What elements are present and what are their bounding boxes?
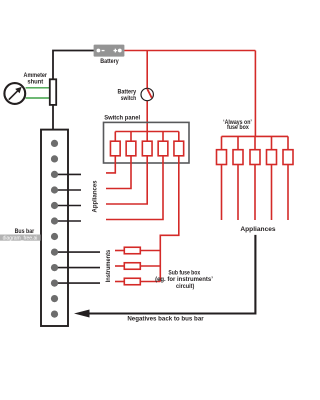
svg-text:Switch panel: Switch panel xyxy=(104,114,140,121)
svg-text:Appliances: Appliances xyxy=(240,226,276,233)
fuse FA5 xyxy=(283,136,293,220)
wire: ammeter sense leads (green) xyxy=(26,87,50,89)
svg-text:Bus bar: Bus bar xyxy=(15,228,35,235)
wire: shunt to bus bar (black) xyxy=(52,105,54,131)
switch SW2 xyxy=(126,132,136,156)
fuse FA3 xyxy=(250,136,260,220)
wire: negatives return (black) xyxy=(89,235,256,314)
svg-text:Appliances: Appliances xyxy=(92,180,99,212)
svg-text:Instruments: Instruments xyxy=(105,249,112,282)
battery B1 xyxy=(94,45,125,65)
svg-text:Negatives back to bus bar: Negatives back to bus bar xyxy=(127,316,204,323)
wire: battery negative to shunt (black) xyxy=(53,51,94,81)
bus bar terminals (dots) xyxy=(51,140,58,318)
wire: appliance negative stub 3 xyxy=(54,205,81,207)
svg-text:circuit): circuit) xyxy=(176,283,194,290)
wire: SW1 output to appliance 1 (red) xyxy=(106,156,115,173)
wire: SW4 output to appliance 4 (red) xyxy=(106,156,163,220)
svg-text:diagram_free.ai: diagram_free.ai xyxy=(3,236,38,242)
fuse FA4 xyxy=(267,136,277,220)
sub fuse F1 xyxy=(115,247,160,254)
wire: appliance negative stub 4 xyxy=(54,220,81,222)
wire xyxy=(26,97,50,99)
ammeter M1 xyxy=(4,72,47,104)
switch SW1 xyxy=(110,132,120,156)
bus bar xyxy=(41,130,68,326)
sub fuse F3 xyxy=(115,278,160,285)
wire: battery positive feed (red) xyxy=(124,50,256,52)
arrowhead into bus bar xyxy=(74,310,90,318)
wire: SW3 output to appliance 3 (red) xyxy=(106,156,147,204)
wire: instrument negative stub 2 xyxy=(54,267,100,269)
svg-text:fuse box: fuse box xyxy=(227,124,249,131)
svg-text:shunt: shunt xyxy=(27,79,44,86)
svg-text:(eg. for instruments’: (eg. for instruments’ xyxy=(155,276,213,283)
wire: appliance negative stub 2 xyxy=(54,189,81,191)
wire: panel bus (red) xyxy=(115,131,179,133)
wire: feed to always-on fuse box (red) xyxy=(254,51,256,137)
wire: instrument negative stub 3 xyxy=(54,282,100,284)
fuse FA1 xyxy=(217,136,227,220)
wire: SW2 output to appliance 2 (red) xyxy=(106,156,131,189)
wire: always-on bus (red) xyxy=(222,135,289,137)
switch panel enclosure xyxy=(104,114,190,163)
node: sub fuse box label xyxy=(155,270,213,291)
sub fuse F2 xyxy=(115,263,160,270)
switch SW4 xyxy=(158,132,168,156)
svg-text:Battery: Battery xyxy=(100,58,119,65)
wire: instrument negative stub 1 xyxy=(54,251,100,253)
fuse FA2 xyxy=(233,136,243,220)
wire: junction to battery switch (red) xyxy=(146,51,148,89)
wire: battery switch to switch panel bus (red) xyxy=(146,101,148,132)
svg-text:switch: switch xyxy=(121,95,137,102)
wire: SW5 output to sub fuse box feed (red) xyxy=(160,156,179,282)
wire: appliance negative stub 1 xyxy=(54,173,81,175)
shunt R1 (ammeter shunt) xyxy=(50,79,56,105)
watermark xyxy=(0,235,41,242)
battery switch S1 xyxy=(118,88,154,102)
switch SW3 xyxy=(142,132,152,156)
always-on fuse box label xyxy=(223,119,252,131)
switch SW5 xyxy=(174,132,184,156)
